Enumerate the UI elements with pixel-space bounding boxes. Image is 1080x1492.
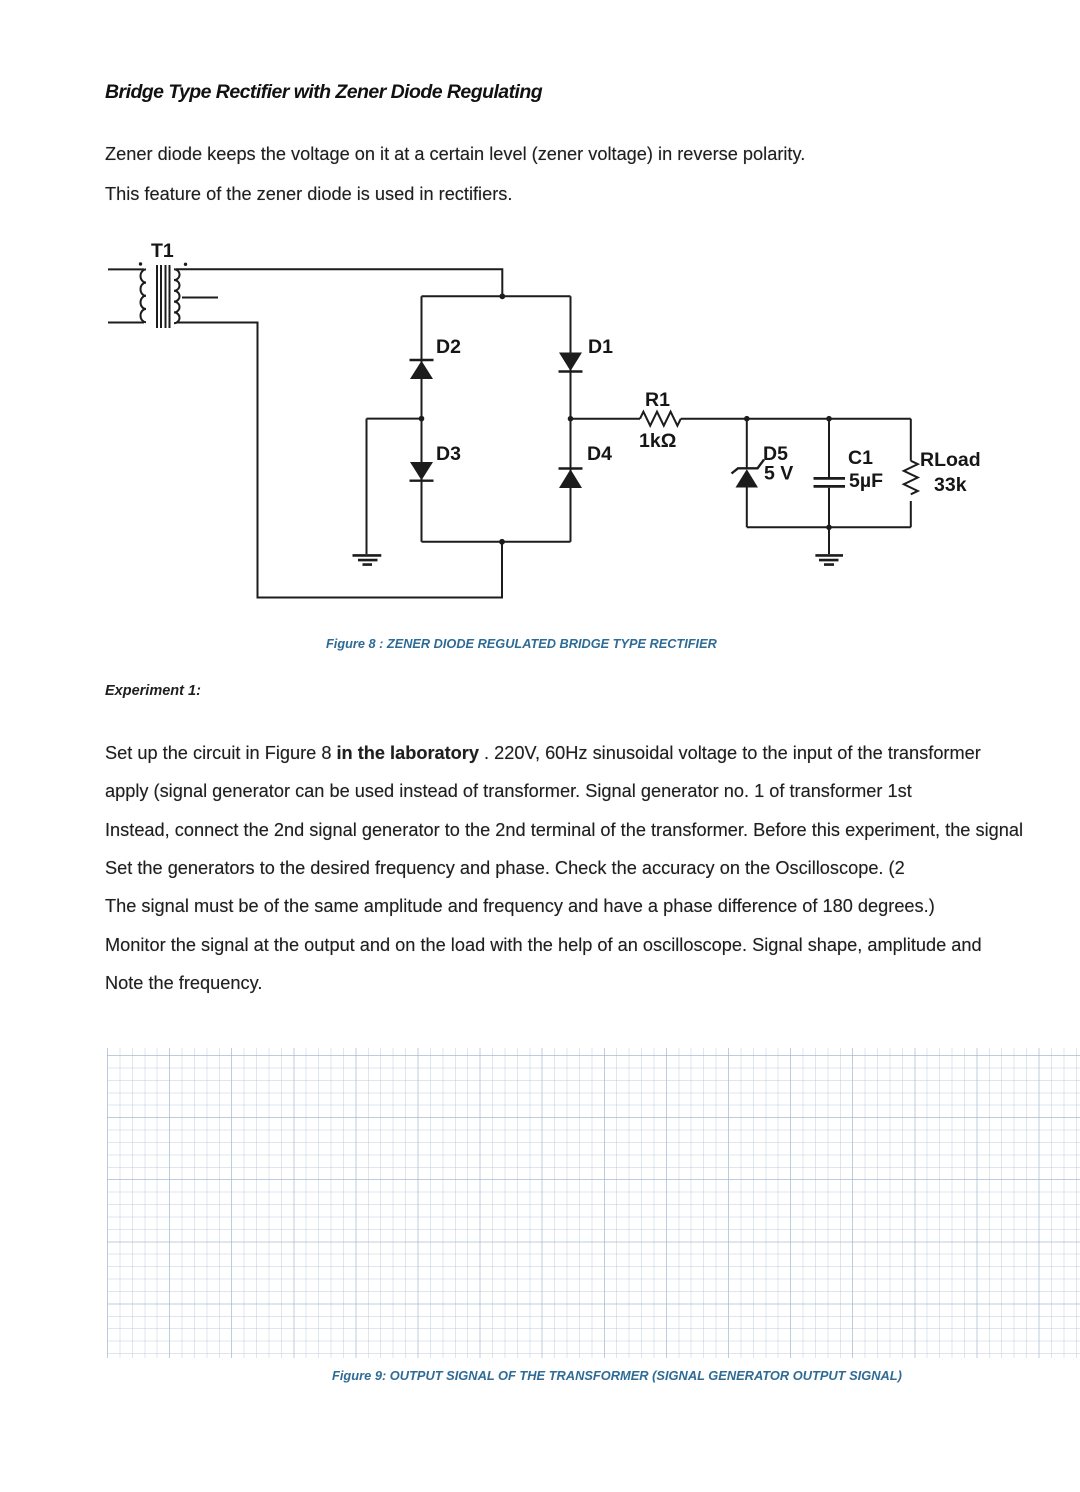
svg-text:D1: D1: [588, 336, 613, 358]
svg-text:T1: T1: [151, 240, 174, 262]
svg-text:5 V: 5 V: [764, 463, 793, 485]
transformer phase dot right: [184, 263, 187, 266]
bridge left branch wire: [421, 296, 423, 542]
paragraph intro: [105, 134, 805, 215]
bridge top rail wire: [422, 295, 571, 297]
bridge right branch wire: [570, 296, 572, 542]
svg-text:D2: D2: [436, 336, 461, 358]
node dot bottom bridge: [499, 539, 505, 545]
figure 9 caption: [332, 1369, 902, 1383]
wire output node rail: [571, 418, 911, 420]
transformer T1 primary bottom stub: [108, 322, 144, 324]
resistor RLoad zigzag: [904, 461, 918, 495]
node dot C1 top: [826, 416, 832, 422]
transformer phase dot left: [139, 262, 142, 265]
svg-text:1kΩ: 1kΩ: [639, 430, 676, 452]
ground 2 bars: [815, 555, 843, 564]
transformer T1 primary top stub: [108, 268, 144, 270]
diode D3 triangle: [410, 462, 433, 480]
figure 8 caption: [326, 637, 717, 651]
wire node B stub to ground: [367, 419, 422, 554]
svg-text:C1: C1: [848, 447, 873, 469]
capacitor C1 top plate: [814, 477, 846, 480]
circuit schematic SVG: [0, 0, 1080, 640]
ground 1 bars: [353, 555, 382, 564]
node dot top bridge: [499, 293, 505, 299]
graph paper grid: [107, 1048, 1080, 1358]
experiment paragraph: [105, 734, 1023, 1002]
svg-text:D4: D4: [587, 443, 612, 465]
bridge bottom rail wire: [422, 541, 571, 543]
transformer T1 core: [157, 265, 170, 328]
bottom rail D5-C1-RLoad: [747, 526, 911, 528]
node dot C1 bottom: [826, 525, 832, 531]
wire secondary bottom, down and to bridge bottom: [176, 323, 502, 598]
title: [105, 81, 542, 103]
diode D2 triangle: [410, 361, 433, 379]
zener D5 triangle: [736, 469, 759, 487]
zener diode D5 branch wire: [746, 419, 748, 528]
diode D2 cathode bar: [410, 359, 434, 361]
diode D4 cathode bar: [559, 467, 583, 469]
transformer T1 center tap stub: [182, 297, 218, 299]
diode D1 cathode bar: [559, 370, 583, 372]
node dot bridge left mid: [419, 416, 425, 422]
svg-text:R1: R1: [645, 389, 670, 411]
svg-text:33k: 33k: [934, 474, 967, 496]
wire secondary top to bridge: [176, 269, 502, 296]
diode D3 cathode bar: [410, 480, 434, 482]
resistor RLoad branch wire: [910, 419, 912, 528]
node dot bridge right mid: [568, 416, 574, 422]
node dot D5 top: [744, 416, 750, 422]
diode D4 triangle: [559, 469, 582, 488]
ground 2 stem: [828, 527, 830, 554]
capacitor C1 bottom plate: [814, 485, 846, 488]
diode D1 triangle: [559, 353, 582, 372]
transformer T1 secondary winding: [174, 269, 180, 323]
experiment heading: [105, 683, 201, 700]
zener D5 bent cathode bar: [732, 460, 765, 474]
svg-text:D3: D3: [436, 443, 461, 465]
svg-text:RLoad: RLoad: [920, 449, 981, 471]
svg-text:5µF: 5µF: [849, 470, 883, 492]
transformer T1 primary winding: [141, 269, 147, 322]
resistor R1 zigzag: [640, 412, 681, 426]
capacitor C1 branch wire: [828, 419, 830, 528]
